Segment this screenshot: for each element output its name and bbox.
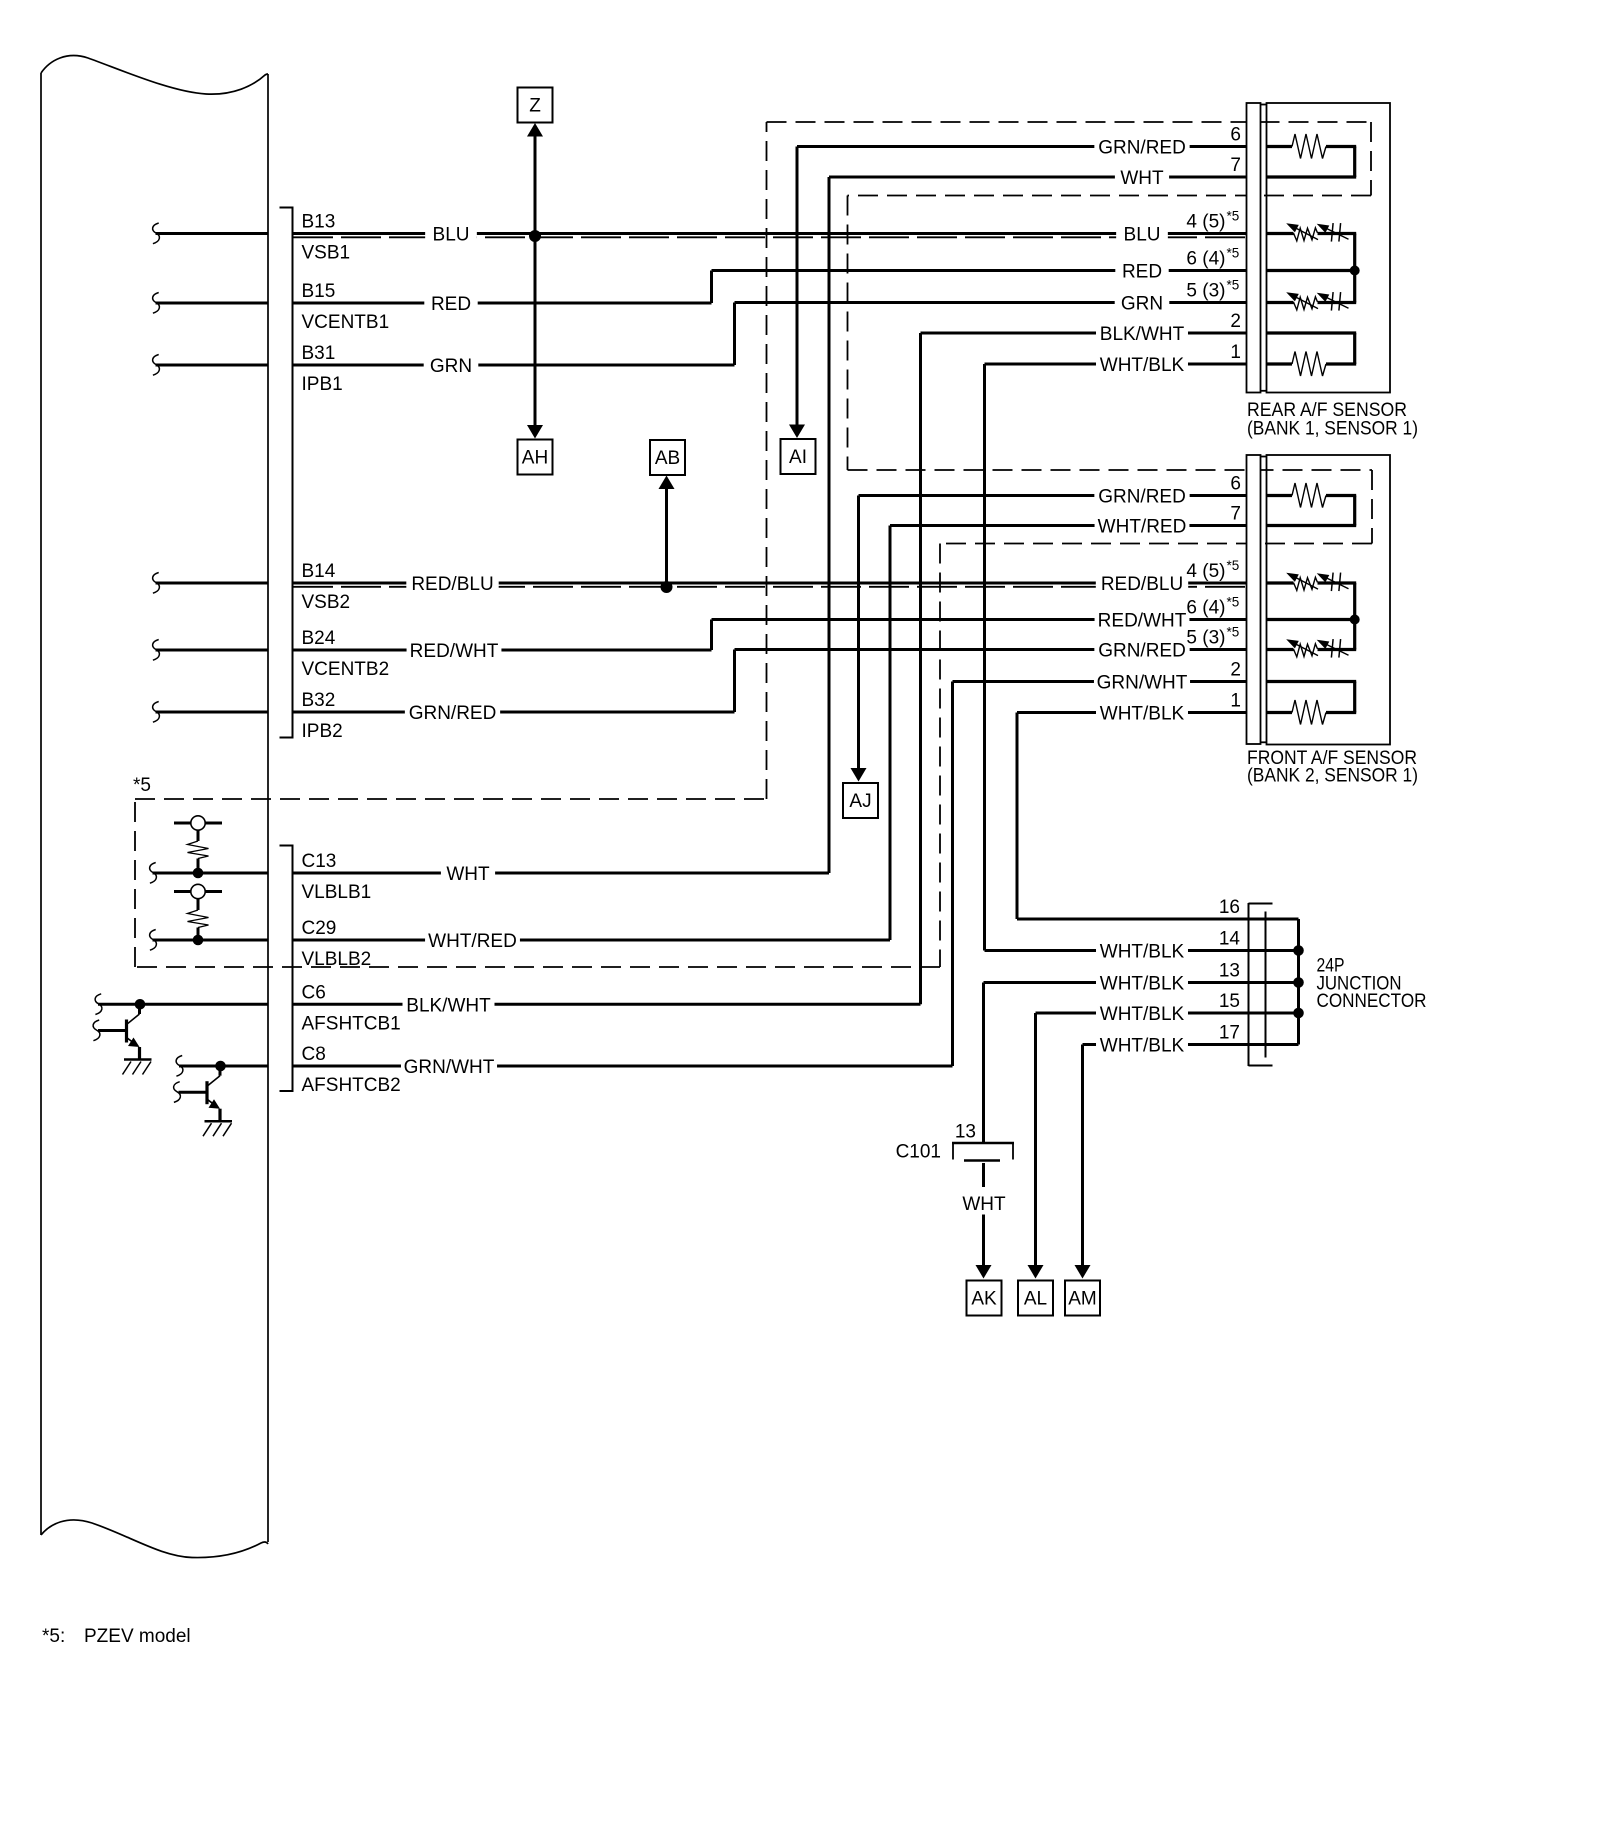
front A/F sensor (bank 2 sensor 1) — [1267, 455, 1391, 745]
svg-text:14: 14 — [1219, 929, 1241, 950]
junction node Q1 collector on C6 wire — [135, 999, 146, 1010]
wire WHT/BLK front sensor pin 1 — [1017, 711, 1247, 714]
svg-text:AJ: AJ — [849, 791, 871, 812]
junction node on C13 wire — [193, 868, 204, 879]
connector ref box Z — [518, 88, 553, 123]
wire GRN/RED front sensor pin 6 — [859, 494, 1247, 497]
wire WHT/BLK riser rear to junction 14 — [983, 364, 986, 951]
junction node on BLU at Z arrow — [529, 230, 541, 242]
svg-text:*5: *5 — [1227, 625, 1240, 640]
wire GRN B31 — [293, 364, 735, 367]
junction node bus pin 14 — [1293, 945, 1304, 956]
wire WHT/BLK junction 13 drop to C101 — [982, 983, 985, 1144]
label wire GRN (sensor side) — [1115, 292, 1170, 315]
resistor pull-up for VLBLB2 (*5) — [174, 884, 222, 940]
svg-text:RED/BLU: RED/BLU — [1101, 574, 1183, 595]
wire WHT/RED to front sensor pin 7 — [890, 524, 1247, 527]
wire WHT/BLK junction pin 14 — [985, 949, 1299, 952]
front sensor connector bar — [1247, 455, 1267, 744]
pin C8 stub — [176, 1056, 268, 1077]
svg-text:IPB2: IPB2 — [302, 721, 343, 742]
wire WHT/BLK junction pin 15 — [1036, 1012, 1299, 1015]
label C101 — [896, 1142, 941, 1163]
svg-text:VCENTB1: VCENTB1 — [302, 312, 390, 333]
svg-text:BLK/WHT: BLK/WHT — [406, 995, 491, 1016]
svg-text:C101: C101 — [896, 1142, 941, 1163]
svg-text:GRN/WHT: GRN/WHT — [404, 1057, 495, 1078]
svg-text:4 (5): 4 (5) — [1186, 561, 1225, 582]
wire WHT riser — [828, 177, 831, 873]
arrow wire to AB — [659, 476, 675, 584]
label wire GRN (ECM side) — [424, 355, 479, 378]
label ECM pin B32 IPB2 — [302, 690, 343, 742]
ECM/PCM block outline — [41, 56, 268, 1558]
svg-text:GRN/RED: GRN/RED — [409, 703, 497, 724]
24P junction connector symbol — [1249, 903, 1273, 1066]
svg-text:13: 13 — [955, 1122, 976, 1143]
svg-text:*5: *5 — [1227, 278, 1240, 293]
transistor Q1 (A/F heater control bank1) — [93, 1004, 139, 1059]
wire GRN to rear sensor pin 5(3) — [735, 301, 1247, 304]
label wire WHT/RED (ECM side) — [425, 930, 520, 953]
svg-text:16: 16 — [1219, 897, 1240, 918]
rear sensor connector bar — [1247, 103, 1267, 393]
svg-text:GRN/RED: GRN/RED — [1098, 138, 1186, 159]
svg-text:1: 1 — [1230, 691, 1241, 712]
wire RED/WHT B24 — [293, 649, 712, 652]
svg-text:Z: Z — [529, 96, 541, 117]
rear A/F sensor (bank 1 sensor 1) — [1267, 103, 1391, 393]
svg-text:5 (3): 5 (3) — [1186, 628, 1225, 649]
wire WHT/BLK rear sensor pin 1 — [985, 363, 1247, 366]
svg-text:WHT/BLK: WHT/BLK — [1100, 704, 1185, 725]
svg-text:AFSHTCB1: AFSHTCB1 — [302, 1013, 401, 1034]
label wire BLK/WHT (sensor side) — [1096, 323, 1188, 346]
ground for Q2 — [203, 1121, 232, 1136]
svg-text:*5: *5 — [1227, 209, 1240, 224]
wire GRN/RED B32 — [293, 711, 735, 714]
wire GRN/RED to front sensor pin 5(3) — [735, 648, 1247, 651]
svg-text:GRN: GRN — [1121, 294, 1163, 315]
label ECM pin B24 VCENTB2 — [302, 628, 390, 680]
svg-text:RED: RED — [431, 294, 471, 315]
label wire RED/BLU (ECM side) — [406, 573, 498, 596]
wire WHT to rear sensor pin 7 — [829, 176, 1247, 179]
wire WHT/RED C29 — [293, 939, 890, 942]
svg-text:6: 6 — [1230, 474, 1241, 495]
wire RED step up — [710, 271, 713, 304]
label wire WHT/BLK (sensor side) — [1096, 1003, 1188, 1026]
svg-text:7: 7 — [1230, 155, 1241, 176]
svg-text:6: 6 — [1230, 125, 1241, 146]
svg-text:17: 17 — [1219, 1023, 1240, 1044]
label wire WHT/BLK (sensor side) — [1096, 702, 1188, 725]
svg-text:PZEV model: PZEV model — [84, 1626, 191, 1647]
svg-text:VSB1: VSB1 — [302, 243, 351, 264]
svg-text:C29: C29 — [302, 918, 337, 939]
ECM connector C bracket — [280, 846, 293, 1092]
svg-text:AI: AI — [789, 447, 807, 468]
svg-text:WHT: WHT — [1120, 168, 1164, 189]
label wire BLU (ECM side) — [425, 223, 477, 246]
wire RED/WHT step up — [710, 620, 713, 651]
svg-text:AK: AK — [971, 1289, 997, 1310]
svg-text:BLU: BLU — [1124, 225, 1161, 246]
label wire WHT (sensor side) — [1115, 167, 1169, 190]
wire RED B15 — [293, 302, 712, 305]
resistor pull-up for VLBLB1 (*5) — [174, 816, 222, 873]
svg-text:(BANK 1, SENSOR 1): (BANK 1, SENSOR 1) — [1247, 419, 1418, 440]
label wire RED/BLU (sensor side) — [1096, 573, 1188, 596]
label wire RED (ECM side) — [424, 293, 477, 316]
connector ref box AM — [1065, 1281, 1100, 1316]
svg-text:7: 7 — [1230, 504, 1241, 525]
svg-text:BLK/WHT: BLK/WHT — [1100, 324, 1185, 345]
junction node bus pin 13 — [1293, 977, 1304, 988]
svg-text:C6: C6 — [302, 982, 326, 1003]
pin C13 stub — [150, 863, 268, 884]
wire GRN/RED rear sensor pin 6 — [797, 145, 1247, 148]
dashed *5 alternate wire under RED/BLU — [293, 586, 1247, 588]
label WHT below C101 — [962, 1194, 1006, 1215]
wire BLK/WHT to rear sensor pin 2 — [921, 332, 1247, 335]
label wire BLK/WHT (ECM side) — [403, 994, 495, 1017]
svg-text:WHT/RED: WHT/RED — [1098, 517, 1187, 538]
svg-text:15: 15 — [1219, 991, 1240, 1012]
connector ref box AJ — [843, 783, 878, 818]
svg-text:WHT/BLK: WHT/BLK — [1100, 1004, 1185, 1025]
label wire WHT/BLK (sensor side) — [1096, 972, 1188, 995]
wire GRN/WHT riser — [951, 682, 954, 1067]
ground for Q1 — [123, 1060, 152, 1075]
svg-text:IPB1: IPB1 — [302, 374, 343, 395]
arrow wire GRN/RED to AJ — [851, 496, 867, 782]
transistor Q2 (A/F heater control bank2) — [174, 1066, 220, 1121]
svg-text:RED/BLU: RED/BLU — [411, 574, 493, 595]
svg-text:RED: RED — [1122, 262, 1162, 283]
svg-text:B13: B13 — [302, 212, 336, 233]
svg-text:AB: AB — [655, 448, 680, 469]
svg-text:*5: *5 — [1227, 246, 1240, 261]
label wire RED (sensor side) — [1115, 260, 1168, 283]
dashed *5 region outline — [135, 122, 1372, 967]
svg-text:6 (4): 6 (4) — [1186, 598, 1225, 619]
label ECM pin C8 AFSHTCB2 — [302, 1044, 401, 1096]
label ECM pin C6 AFSHTCB1 — [302, 982, 401, 1034]
svg-text:GRN/RED: GRN/RED — [1098, 487, 1186, 508]
label *5 on dashed box — [133, 775, 151, 796]
svg-text:B15: B15 — [302, 281, 336, 302]
svg-text:*5: *5 — [1227, 595, 1240, 610]
dashed *5 alternate wire under BLU — [293, 236, 1247, 238]
svg-text:2: 2 — [1230, 311, 1241, 332]
pin B15 stub — [153, 293, 268, 314]
label ECM pin B31 IPB1 — [302, 343, 343, 395]
connector ref box AK — [967, 1281, 1002, 1316]
svg-text:WHT/BLK: WHT/BLK — [1100, 355, 1185, 376]
svg-text:C8: C8 — [302, 1044, 326, 1065]
svg-text:B24: B24 — [302, 628, 336, 649]
arrow into AM — [1075, 1265, 1091, 1279]
label wire RED/WHT (ECM side) — [407, 640, 502, 663]
pin B32 stub — [153, 702, 268, 723]
wire BLK/WHT C6 — [293, 1003, 921, 1006]
pin B24 stub — [153, 640, 268, 661]
label wire WHT/RED (sensor side) — [1095, 515, 1190, 538]
svg-text:*5:: *5: — [42, 1626, 65, 1647]
junction node Q2 collector on C8 wire — [215, 1061, 226, 1072]
wire junction pin 16 — [1017, 918, 1299, 921]
wire BLU B13 to rear sensor pin 4 — [293, 232, 1247, 235]
pin C6 stub — [95, 994, 268, 1015]
label wire BLU (sensor side) — [1116, 223, 1168, 246]
svg-text:WHT/BLK: WHT/BLK — [1100, 974, 1185, 995]
svg-text:*5: *5 — [133, 775, 151, 796]
pin B14 stub — [153, 573, 268, 594]
label wire GRN/RED (sensor side) — [1094, 485, 1189, 508]
label ECM pin B14 VSB2 — [302, 561, 351, 613]
svg-text:WHT: WHT — [962, 1194, 1006, 1215]
junction node bus pin 15 — [1293, 1008, 1304, 1019]
svg-text:RED/WHT: RED/WHT — [410, 641, 499, 662]
label wire GRN/WHT (sensor side) — [1094, 671, 1190, 694]
svg-text:4 (5): 4 (5) — [1186, 212, 1225, 233]
label ECM pin C13 VLBLB1 — [302, 851, 372, 903]
svg-text:WHT/BLK: WHT/BLK — [1100, 942, 1185, 963]
svg-text:13: 13 — [1219, 961, 1240, 982]
wire WHT/BLK junction pin 17 — [1083, 1043, 1299, 1046]
label wire GRN/RED (ECM side) — [405, 702, 500, 725]
svg-text:B32: B32 — [302, 690, 336, 711]
label wire WHT/BLK (sensor side) — [1096, 940, 1188, 963]
label C101 pin 13 — [955, 1122, 976, 1143]
wire GRN/WHT to front sensor pin 2 — [953, 680, 1247, 683]
front sensor pin numbers — [1186, 474, 1241, 712]
wire GRN step up — [733, 303, 736, 366]
svg-text:1: 1 — [1230, 342, 1241, 363]
label ECM pin C29 VLBLB2 — [302, 918, 372, 970]
svg-text:VLBLB2: VLBLB2 — [302, 949, 372, 970]
wire BLK/WHT riser — [919, 333, 922, 1004]
label wire WHT/BLK (sensor side) — [1096, 1034, 1188, 1057]
label ECM pin B13 VSB1 — [302, 212, 351, 264]
wire WHT/BLK junction pin 13 — [984, 981, 1299, 984]
junction node on C29 wire — [193, 935, 204, 946]
ECM connector B bracket — [280, 208, 293, 738]
label 24P JUNCTION CONNECTOR — [1317, 956, 1427, 1013]
label REAR A/F SENSOR — [1247, 400, 1418, 440]
label wire RED/WHT (sensor side) — [1095, 609, 1190, 632]
wire WHT/BLK riser front to junction 16 — [1016, 713, 1019, 920]
connector ref box AH — [518, 440, 553, 475]
wire RED/WHT to front sensor pin 6(4) — [712, 618, 1247, 621]
connector ref box AB — [650, 440, 685, 475]
arrow into AK — [976, 1265, 992, 1279]
wire WHT/BLK junction 17 drop — [1081, 1045, 1084, 1267]
svg-text:AM: AM — [1068, 1289, 1097, 1310]
label wire WHT/BLK (sensor side) — [1096, 354, 1188, 377]
svg-text:AFSHTCB2: AFSHTCB2 — [302, 1075, 401, 1096]
svg-text:2: 2 — [1230, 660, 1241, 681]
arrow into AL — [1028, 1265, 1044, 1279]
connector ref box AL — [1018, 1281, 1053, 1316]
wire RED to rear sensor pin 6(4) — [712, 269, 1247, 272]
connector C101 — [952, 1143, 1014, 1266]
arrow wire Z to AH — [527, 123, 543, 439]
label wire GRN/RED (sensor side) — [1094, 136, 1189, 159]
wire WHT/RED riser — [889, 526, 892, 941]
label wire WHT (ECM side) — [441, 863, 495, 886]
label ECM pin B15 VCENTB1 — [302, 281, 390, 333]
svg-text:WHT/RED: WHT/RED — [428, 931, 517, 952]
svg-text:VLBLB1: VLBLB1 — [302, 882, 372, 903]
pin B13 stub — [153, 223, 268, 244]
svg-text:AL: AL — [1024, 1289, 1047, 1310]
svg-text:B14: B14 — [302, 561, 336, 582]
svg-text:(BANK 2, SENSOR 1): (BANK 2, SENSOR 1) — [1247, 766, 1418, 787]
arrow wire GRN/RED to AI — [789, 147, 805, 439]
pin B31 stub — [153, 355, 268, 376]
svg-text:GRN/WHT: GRN/WHT — [1097, 673, 1188, 694]
label wire GRN/WHT (ECM side) — [401, 1056, 497, 1079]
svg-text:WHT/BLK: WHT/BLK — [1100, 1036, 1185, 1057]
connector ref box AI — [781, 439, 816, 474]
svg-text:WHT: WHT — [446, 864, 490, 885]
junction node on RED/BLU at AB arrow — [661, 581, 673, 593]
svg-text:RED/WHT: RED/WHT — [1098, 611, 1187, 632]
svg-text:GRN/RED: GRN/RED — [1098, 641, 1186, 662]
wire WHT/BLK junction 15 drop — [1034, 1013, 1037, 1266]
svg-text:AH: AH — [522, 448, 548, 469]
label FRONT A/F SENSOR — [1247, 748, 1418, 787]
pin C29 stub — [150, 930, 268, 951]
svg-text:6 (4): 6 (4) — [1186, 249, 1225, 270]
wire WHT C13 — [293, 872, 829, 875]
svg-text:*5: *5 — [1227, 558, 1240, 573]
svg-text:VSB2: VSB2 — [302, 592, 351, 613]
rear sensor pin numbers — [1186, 125, 1241, 364]
label wire GRN/RED (sensor side) — [1094, 639, 1189, 662]
junction connector bus — [1297, 919, 1300, 1045]
wire GRN/RED step up — [733, 650, 736, 713]
wire GRN/WHT C8 — [293, 1065, 953, 1068]
svg-text:VCENTB2: VCENTB2 — [302, 659, 390, 680]
svg-text:CONNECTOR: CONNECTOR — [1317, 991, 1427, 1012]
note *5 PZEV model — [42, 1626, 191, 1647]
wire RED/BLU B14 to front sensor pin 4 — [293, 582, 1247, 585]
svg-text:BLU: BLU — [433, 225, 470, 246]
svg-text:C13: C13 — [302, 851, 337, 872]
svg-text:B31: B31 — [302, 343, 336, 364]
junction connector pin numbers — [1219, 897, 1241, 1044]
svg-text:5 (3): 5 (3) — [1186, 281, 1225, 302]
svg-text:GRN: GRN — [430, 356, 472, 377]
